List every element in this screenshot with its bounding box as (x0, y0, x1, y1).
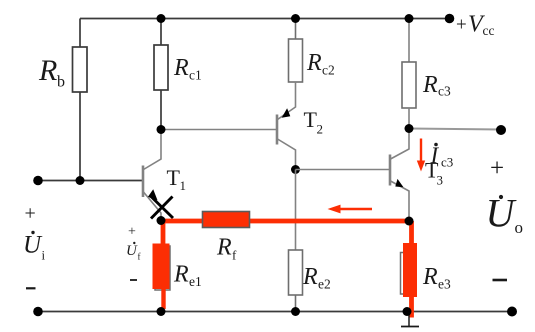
wire top supply rail (80, 18, 450, 20)
node output terminal bottom (507, 307, 517, 317)
svg-text:I: I (430, 143, 440, 168)
resistor Re2 (289, 250, 303, 295)
wire Rc1 bottom to collector node (160, 90, 162, 130)
svg-text:cc: cc (483, 23, 495, 38)
wire T3 collector to output terminal (409, 129, 501, 130)
svg-text:R: R (173, 55, 189, 81)
node top rail Rc3 (405, 14, 414, 23)
node T3 collector junction (405, 124, 414, 133)
svg-text:U: U (486, 191, 518, 236)
label Rc3 (422, 72, 451, 99)
label Rb (38, 54, 65, 91)
label Rf (216, 235, 237, 263)
wire junction down to Re2 (295, 170, 297, 251)
feedback red wire horizontal Re1 to Re3 (160, 219, 412, 224)
svg-text:R: R (38, 54, 57, 87)
node top rail Rc1 (157, 14, 166, 23)
wire Rc3 top stub (408, 19, 410, 63)
wire Rc3 bottom to T3 collector node (408, 108, 410, 129)
svg-text:+: + (25, 203, 36, 225)
feedback red wire right corner down to Re3 (409, 221, 414, 244)
svg-text:3: 3 (437, 173, 444, 188)
svg-text:c3: c3 (438, 84, 451, 99)
label Re1 (173, 262, 202, 290)
svg-text:e3: e3 (438, 277, 451, 292)
svg-text:+: + (128, 225, 136, 240)
svg-text:R: R (216, 235, 232, 261)
wire Re3 bottom red stub past rail (409, 297, 414, 318)
node Rb/input junction (76, 176, 85, 185)
label Ui input voltage (23, 203, 46, 289)
resistor Rc3 (402, 62, 416, 108)
wire Rb top stub (79, 19, 81, 48)
svg-text:+: + (490, 155, 504, 182)
feedback red wire left corner down to Re1 (161, 221, 166, 245)
label Ic3 current (430, 143, 454, 170)
wire bottom rail (38, 311, 512, 313)
wire T2 collector to T3 base (296, 169, 390, 171)
svg-text:T: T (304, 107, 318, 132)
node T3 emitter feedback node (405, 217, 414, 226)
wire Re2 bottom stub (295, 295, 297, 312)
label Uf feedback voltage (126, 225, 141, 281)
node top rail Rc2 (291, 14, 300, 23)
wire input to T1 base (38, 180, 143, 182)
wire Rc1 top stub (160, 19, 162, 46)
label Rc1 (173, 55, 202, 83)
node T1 collector junction (157, 125, 166, 134)
label Rc2 (306, 50, 335, 78)
svg-text:R: R (302, 264, 318, 290)
svg-text:T: T (167, 165, 181, 190)
resistor Rf (203, 212, 250, 228)
label T3 (425, 158, 443, 188)
label +Vcc (456, 12, 494, 39)
wire T1 collector node to T2 base (161, 129, 277, 131)
resistor Re3 outline (401, 253, 416, 295)
svg-text:+: + (456, 15, 467, 36)
svg-text:c1: c1 (189, 68, 202, 83)
resistor Rb (73, 47, 88, 92)
resistor Re3 red body (403, 243, 417, 297)
node bottom rail input terminal (33, 307, 43, 317)
svg-text:R: R (422, 72, 438, 98)
svg-text:e1: e1 (189, 274, 202, 289)
transistor T3 (390, 129, 409, 222)
svg-text:R: R (422, 264, 438, 290)
svg-text:e2: e2 (318, 277, 331, 292)
node output terminal top (496, 125, 506, 135)
label Re3 (422, 264, 451, 292)
svg-text:2: 2 (317, 122, 324, 137)
svg-text:c3: c3 (441, 155, 453, 170)
resistor Rc1 (154, 45, 168, 90)
node T2 collector junction (291, 165, 300, 174)
transistor T2 (277, 82, 296, 170)
arrow feedback current red (328, 205, 373, 214)
svg-text:o: o (515, 218, 524, 237)
svg-text:U: U (23, 232, 43, 259)
node bottom rail Re2 (291, 307, 300, 316)
svg-text:R: R (306, 50, 322, 76)
ground (401, 312, 419, 327)
transistor T1 (143, 131, 161, 219)
resistor Rc2 (289, 39, 303, 82)
arrow Ic3 red (417, 139, 425, 172)
label T2 (304, 107, 324, 137)
node T1 emitter feedback node (157, 216, 166, 225)
svg-text:b: b (57, 74, 65, 91)
label Re2 (302, 264, 331, 292)
svg-text:f: f (138, 252, 141, 262)
svg-text:c2: c2 (322, 63, 335, 78)
svg-text:R: R (173, 262, 189, 288)
label Uo output voltage (486, 155, 524, 280)
break mark X on T1 emitter (151, 196, 174, 219)
svg-text:f: f (232, 248, 237, 263)
node Vcc terminal (445, 14, 455, 24)
svg-text:U: U (126, 243, 138, 259)
node input terminal (33, 176, 43, 186)
node bottom rail ground junction (403, 307, 412, 316)
wire Rc2 top stub (295, 19, 297, 40)
wire Rb bottom to input node (79, 92, 81, 181)
node bottom rail Re1 (157, 307, 166, 316)
svg-text:1: 1 (180, 178, 187, 193)
wire Re1 bottom red stub (161, 289, 165, 309)
resistor Re1 outline (155, 246, 170, 290)
svg-text:i: i (42, 248, 46, 263)
resistor Re1 red body (153, 244, 170, 290)
label T1 (167, 165, 187, 193)
